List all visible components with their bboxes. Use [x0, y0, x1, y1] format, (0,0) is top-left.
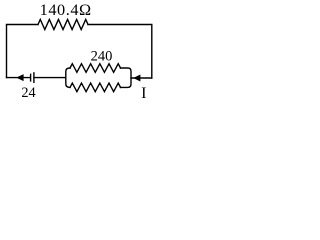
battery B1 long plate: [33, 73, 35, 82]
wire node B to right side: [131, 77, 152, 79]
svg-text:24: 24: [21, 85, 35, 101]
svg-text:140.4Ω: 140.4Ω: [40, 0, 92, 19]
resistor R3 (bottom branch): [70, 83, 121, 92]
node A left bracket of parallel pair: [66, 68, 70, 87]
wire bottom-left to battery: [7, 77, 31, 79]
arrow current I into parallel pair: [133, 75, 140, 82]
resistor R2 240 (top branch): [70, 64, 121, 73]
resistor R1 140.4 ohm: [38, 20, 88, 30]
battery B1 short plate: [30, 74, 32, 81]
arrow current direction at battery: [16, 74, 23, 81]
wire top-right segment: [88, 25, 152, 79]
svg-text:240: 240: [91, 49, 113, 65]
wire top-left segment: [7, 25, 39, 78]
svg-text:I: I: [141, 85, 146, 102]
wire battery to parallel node A: [34, 77, 66, 79]
node B right bracket of parallel pair: [121, 68, 132, 87]
